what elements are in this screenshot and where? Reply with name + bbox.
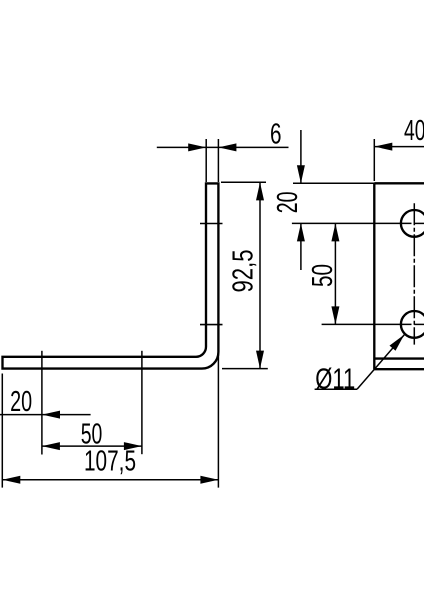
side view: hole line 1 (horizontal leg) / extension line (41, 351, 43, 455)
dim 50 right: up arrowhead (331, 223, 339, 241)
dim 20 right: lower tail line (300, 223, 302, 270)
dim Ø11: leader arrowhead (390, 335, 405, 351)
dim 20 bottom: arrowhead (42, 411, 60, 419)
dim Ø11: leader line (357, 335, 404, 390)
dim 50 bottom: right arrowhead (124, 442, 142, 450)
front view: plate top edge (374, 182, 424, 184)
side view: L-bracket outline (3, 183, 219, 368)
dim 6: dimension line (157, 146, 289, 148)
dim 6: right arrowhead (218, 143, 236, 151)
dim 20 right: top edge extension line (293, 182, 374, 184)
dim 92,5: bottom extension line (222, 368, 268, 370)
dim 107,5: left arrowhead (2, 476, 20, 484)
svg-text:92,5: 92,5 (227, 250, 259, 293)
front view: hole 2 horizontal center line (322, 323, 412, 325)
dim 40: extension line (373, 139, 375, 181)
dim 107,5: right arrowhead (200, 476, 218, 484)
svg-text:20: 20 (10, 386, 32, 418)
dim 50 bottom: dimension line (42, 445, 142, 447)
svg-text:50: 50 (307, 264, 339, 287)
dim 6: left arrowhead (188, 143, 206, 151)
front view: hole 2 circle (401, 311, 424, 338)
dim 92,5: dimension line (259, 182, 261, 368)
svg-text:107,5: 107,5 (84, 446, 136, 478)
svg-text:20: 20 (272, 192, 304, 214)
dim 20 bottom: dimension line (0, 414, 42, 416)
front view: plate left edge (373, 183, 375, 369)
dim 6: right extension line (217, 139, 219, 182)
dim 6: left extension line (205, 139, 207, 182)
svg-text:40: 40 (404, 115, 424, 147)
dim 20 right: upper tail line (300, 130, 302, 183)
front view: hole 1 circle (401, 210, 424, 237)
dim 92,5: top extension line (221, 181, 266, 183)
svg-text:Ø11: Ø11 (315, 363, 355, 395)
dim 20 bottom: tail line (42, 414, 91, 416)
front view: hole 1 horizontal center line (292, 222, 412, 224)
dim 50 bottom: left arrowhead (42, 442, 60, 450)
dim 107,5: right extension line (217, 352, 219, 488)
front view: vertical center line through holes (413, 203, 415, 344)
dim 20 right: down arrowhead (297, 165, 305, 183)
dim 20 right: up arrowhead (297, 223, 305, 241)
side view: hole line 2 (horizontal leg) / extension line (141, 351, 143, 454)
side view: hole 2 center tick (vertical leg) (200, 324, 223, 326)
dim 40: dimension line (374, 146, 424, 148)
dim 40: arrowhead (374, 143, 392, 151)
dim 50 right: down arrowhead (331, 306, 339, 324)
side view: hole 1 center tick (vertical leg) (200, 223, 223, 225)
dim 50 right: dimension line (334, 223, 336, 324)
svg-text:6: 6 (270, 119, 282, 151)
front view: bottom edge (374, 368, 424, 370)
dim 107,5: dimension line (2, 479, 218, 481)
dim 92,5: top arrowhead (256, 182, 264, 200)
dim 92,5: bottom arrowhead (256, 351, 264, 369)
dim Ø11: underline (315, 388, 357, 390)
front view: bend tangent line (374, 357, 424, 359)
dim 20 bottom: left extension line (1, 374, 3, 488)
